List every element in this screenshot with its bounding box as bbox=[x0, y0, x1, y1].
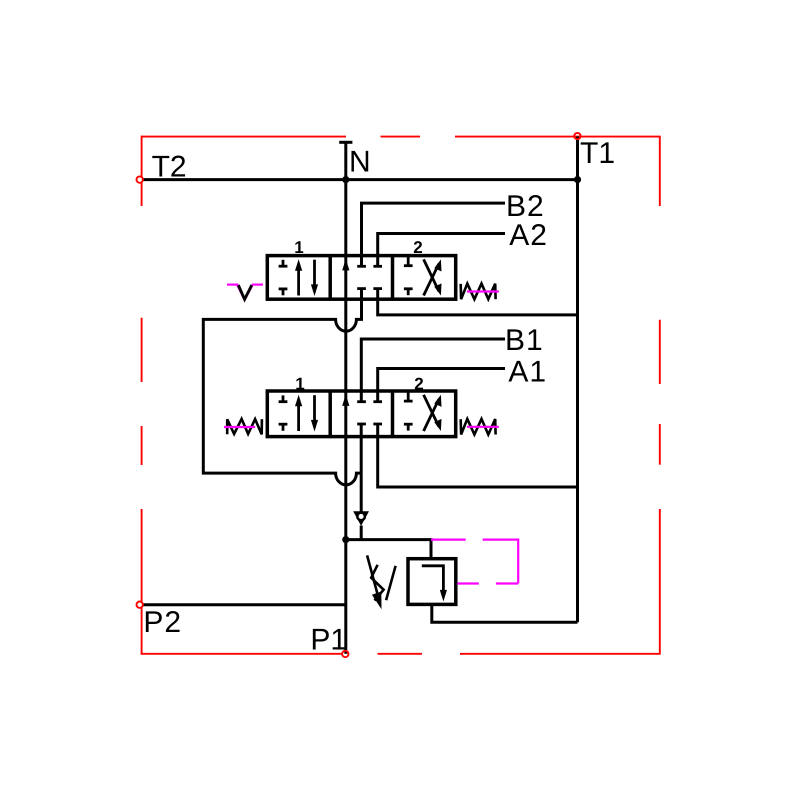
svg-text:B2: B2 bbox=[506, 190, 545, 223]
svg-text:2: 2 bbox=[414, 375, 423, 394]
svg-text:1: 1 bbox=[294, 238, 303, 257]
svg-text:T1: T1 bbox=[580, 137, 615, 170]
svg-text:A1: A1 bbox=[508, 355, 547, 388]
svg-text:T2: T2 bbox=[152, 151, 187, 184]
svg-text:1: 1 bbox=[295, 375, 304, 394]
svg-text:A2: A2 bbox=[509, 219, 548, 252]
svg-text:2: 2 bbox=[413, 238, 422, 257]
svg-text:B1: B1 bbox=[505, 324, 544, 357]
svg-text:P1: P1 bbox=[310, 623, 347, 656]
svg-text:P2: P2 bbox=[143, 606, 182, 639]
svg-text:N: N bbox=[349, 145, 371, 178]
